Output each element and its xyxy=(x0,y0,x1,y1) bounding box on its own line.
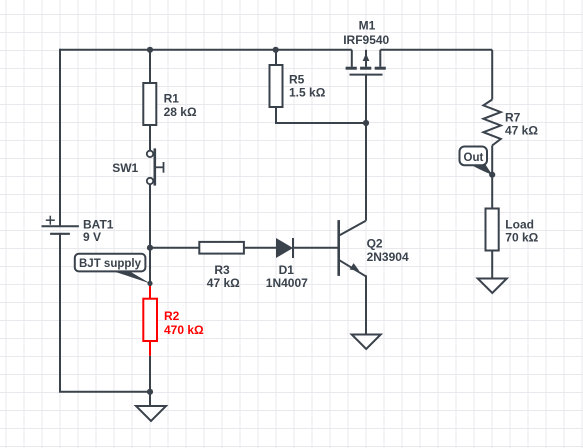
svg-text:BJT supply: BJT supply xyxy=(79,258,142,270)
callout Out xyxy=(460,147,493,175)
wire M1 gate down to node xyxy=(365,75,367,123)
switch SW1 xyxy=(112,148,163,185)
ground (below Q2) xyxy=(352,335,381,350)
MOSFET M1 xyxy=(343,19,389,75)
svg-text:D1: D1 xyxy=(279,263,295,277)
wire R1 top lead xyxy=(149,50,151,83)
ground (below R2) xyxy=(136,406,166,421)
svg-text:47 kΩ: 47 kΩ xyxy=(207,276,240,290)
svg-text:70 kΩ: 70 kΩ xyxy=(505,231,538,245)
wire top rail left segment xyxy=(60,49,352,51)
battery BAT1 xyxy=(42,216,114,244)
junction node (top rail / R5) xyxy=(273,47,279,53)
wire Load bottom lead xyxy=(491,251,493,279)
svg-text:2N3904: 2N3904 xyxy=(367,250,409,264)
svg-text:Load: Load xyxy=(505,218,534,232)
svg-text:IRF9540: IRF9540 xyxy=(343,33,389,47)
junction node Out xyxy=(489,172,495,178)
svg-text:1N4007: 1N4007 xyxy=(266,276,308,290)
diode D1 xyxy=(266,238,308,290)
wire R3 to D1 xyxy=(244,247,276,249)
ground (below Load) xyxy=(478,279,507,294)
wire top rail right segment xyxy=(380,49,492,51)
wire R2 bottom to ground xyxy=(149,356,151,406)
svg-text:Q2: Q2 xyxy=(367,236,383,250)
wire R7 bottom to Load xyxy=(491,146,493,209)
wire R5 bottom lead to gate node xyxy=(276,107,366,123)
junction node A (R3 tap) xyxy=(147,245,153,251)
wire R7 top lead xyxy=(491,50,493,100)
svg-text:R2: R2 xyxy=(164,309,180,323)
junction node (top rail / R1) xyxy=(147,47,153,53)
svg-text:28 kΩ: 28 kΩ xyxy=(164,105,197,119)
junction node (gate / R5 / collector) xyxy=(363,120,369,126)
wire left branch vertical (battery bottom) xyxy=(59,234,61,392)
junction node (bottom / ground) xyxy=(147,389,153,395)
resistor R7 (zigzag) xyxy=(483,100,538,146)
svg-text:M1: M1 xyxy=(359,19,376,33)
wire node A to R3 xyxy=(150,247,199,249)
svg-text:Out: Out xyxy=(464,152,484,164)
wire left branch vertical (battery top) xyxy=(59,49,61,226)
svg-text:9 V: 9 V xyxy=(83,230,101,244)
callout BJT supply xyxy=(75,254,153,286)
svg-text:R7: R7 xyxy=(505,111,521,125)
svg-text:R1: R1 xyxy=(164,92,180,106)
wire SW1 to node A xyxy=(149,184,151,283)
resistor R5 xyxy=(270,65,326,107)
wire R5 top lead xyxy=(275,50,277,65)
wire D1 to Q2 base xyxy=(293,247,339,249)
wire R1 to SW1 xyxy=(149,125,151,151)
svg-text:470 kΩ: 470 kΩ xyxy=(164,323,204,337)
resistor Load xyxy=(486,209,539,251)
wire bottom left horizontal xyxy=(59,391,150,393)
resistor R1 xyxy=(143,83,197,125)
svg-text:47 kΩ: 47 kΩ xyxy=(505,124,538,138)
svg-text:R5: R5 xyxy=(289,73,305,87)
svg-text:SW1: SW1 xyxy=(112,161,138,175)
svg-text:1.5 kΩ: 1.5 kΩ xyxy=(289,86,326,100)
wire Q2 emitter to ground xyxy=(365,275,367,334)
transistor Q2 xyxy=(339,220,409,276)
resistor R3 xyxy=(199,242,244,290)
svg-text:R3: R3 xyxy=(214,263,230,277)
wire gate node to Q2 collector xyxy=(365,123,367,221)
resistor R2 (red) xyxy=(143,283,204,356)
